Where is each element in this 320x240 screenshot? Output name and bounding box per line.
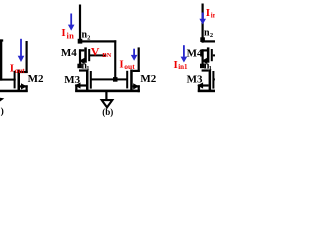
svg-text:I: I xyxy=(206,7,210,19)
svg-text:M2: M2 xyxy=(140,73,156,85)
svg-text:I: I xyxy=(10,62,14,74)
svg-text:in1: in1 xyxy=(178,63,188,71)
svg-text:BN: BN xyxy=(102,52,111,59)
svg-text:(b): (b) xyxy=(102,107,113,117)
svg-text:I: I xyxy=(174,59,178,71)
svg-text:M3: M3 xyxy=(64,74,80,86)
svg-text:M3: M3 xyxy=(187,74,203,86)
svg-text:I: I xyxy=(61,27,65,39)
svg-text:V: V xyxy=(91,45,100,59)
svg-text:in: in xyxy=(211,12,215,20)
svg-text:2: 2 xyxy=(87,34,90,41)
svg-text:out: out xyxy=(15,67,25,75)
svg-text:): ) xyxy=(1,106,4,117)
svg-text:M4: M4 xyxy=(187,48,203,60)
svg-text:out: out xyxy=(124,62,135,71)
svg-text:2: 2 xyxy=(210,32,213,39)
svg-text:in: in xyxy=(67,31,75,41)
svg-text:I: I xyxy=(119,59,123,71)
svg-text:M4: M4 xyxy=(61,47,77,59)
svg-text:M2: M2 xyxy=(28,73,44,85)
